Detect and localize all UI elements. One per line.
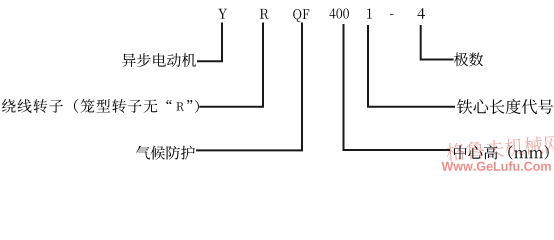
label raoxianzhuanzi part1 — [2, 99, 157, 113]
label qihoufanghu — [136, 146, 195, 160]
node Y — [218, 9, 227, 19]
watermark 格鲁夫机械网 — [446, 134, 554, 161]
node 4 — [417, 8, 425, 19]
wire Y to yibu label — [197, 23, 222, 62]
wire R to raoxian label — [199, 23, 263, 107]
wire 400 to zhongxingao label — [344, 24, 451, 150]
node R — [260, 9, 269, 19]
label zhongxingao — [454, 145, 549, 159]
watermark Www.GeLufu.Com — [442, 161, 551, 171]
label yibudongdongji — [122, 53, 196, 67]
node 1 — [367, 9, 372, 19]
node 400 — [329, 8, 349, 18]
label raoxian R — [176, 102, 184, 111]
node hyphen — [390, 13, 394, 16]
label raoxian quote close — [187, 100, 192, 104]
label raoxian close paren — [195, 100, 199, 113]
wire 4 to jishu label — [421, 25, 454, 60]
wire 1 to tiexin label — [368, 25, 455, 107]
wire QF to qihou label — [196, 23, 302, 151]
label tiexinchangdu — [457, 99, 553, 114]
node QF — [293, 9, 309, 22]
label raoxian quote open — [166, 100, 171, 104]
label jishu — [454, 53, 483, 67]
